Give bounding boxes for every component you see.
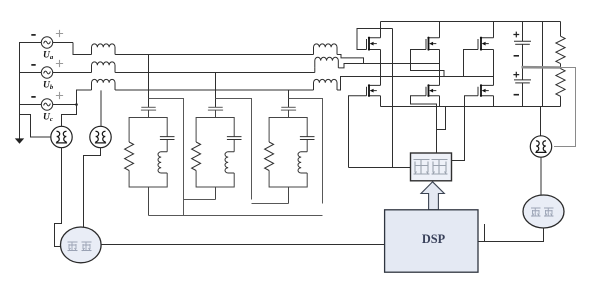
AC source Ua [41,37,52,48]
wire Ua left lead [19,42,41,44]
wire Q4 gate hook [437,107,446,130]
resistor R31 [265,142,274,171]
wire branch 1 bypass link [149,99,184,216]
transistor Q6 [481,85,494,95]
wire DC midpoint link [522,66,561,69]
transistor Q4 [429,85,440,95]
wire DC cap rail mid [522,44,524,80]
wire right sampler to DSP [478,228,544,242]
resistor Rd2 [556,69,565,97]
wire DC middle rail [542,22,544,107]
wire Q6 gate lead [452,96,479,161]
wire branch 2 loop frame [196,118,234,188]
wire between resistors [560,64,562,69]
transistor Q3 [429,38,440,50]
wire leg1 rail mid [380,50,382,86]
wire DC- to CT3 [540,107,542,136]
inductor La [92,44,116,55]
polarity + of Ub [56,60,63,67]
wire Uc riser to inductor Lc [77,90,92,105]
wire phase a line [115,54,313,56]
wire Ub right lead [53,72,92,74]
wire CT2 top tap [100,90,102,126]
capacitor Cd1 [514,40,531,42]
wire Ua right lead [53,42,73,44]
wire branch 1 drop from phase [148,55,150,108]
wire ground-side jog to CT1 [20,115,51,138]
polarity - of Cd1 [514,55,519,57]
polarity - of Uc [31,96,35,98]
polarity + of Uc [56,92,63,99]
wire branch 2 bottom link to return 1 [184,199,216,201]
wire CT1 to sampler [55,148,62,247]
inductor LB [314,68,316,73]
wire filter bottom bus [149,215,323,217]
transistor Q5 [481,38,494,50]
wire leg3 rail bottom [493,96,495,107]
polarity - of Ua [31,34,35,36]
wire branch 2 bottom drop [215,187,217,200]
wire CT3 to right sampler [540,157,542,195]
transistor Q2 [369,85,381,95]
wire leg2 rail mid [439,50,441,86]
inductor L11 [158,152,167,173]
wire branch 3 drop from phase [288,90,290,107]
wire resistor rail top [560,22,562,37]
wire midpoint to CT3 [554,68,576,147]
sampler right block [523,195,564,228]
wire branch 3 bottom link to return 2 [252,203,289,205]
inductor L21 [225,152,234,173]
wire phase b line [115,72,315,74]
capacitor C11 series [141,106,155,108]
sampler left block [61,227,102,263]
inductor Lc [92,79,116,90]
svg-text:Ub: Ub [43,81,54,92]
resistor Rd1 [556,36,565,63]
wire Q3 gate loop [411,50,445,77]
wire branch 2 bypass link [216,99,252,200]
svg-text:Uc: Uc [43,113,53,124]
node phase c junction [75,103,78,106]
transistor Q1 [369,38,381,50]
wire leg2 rail bottom [439,96,441,107]
wire Uc right lead [53,104,77,106]
wire Ub left lead [19,72,41,74]
current transformer CT3 [530,136,551,157]
wire phase C to leg3 [337,77,493,91]
wire DC- bottom bus [381,106,561,108]
wire Q3 drain rail [439,22,441,38]
capacitor C21 series [208,106,222,108]
wire CT2 to sampler [84,148,101,229]
ground [15,138,24,143]
polarity - of Ub [31,64,35,66]
wire Uc left lead [19,104,41,106]
polarity + of Cd2 [513,72,519,78]
polarity + of Cd1 [513,32,519,38]
wire branch 2 drop from phase [215,73,217,108]
block arrow DSP to driver [421,182,444,210]
driver block [411,153,452,181]
svg-text:Ua: Ua [43,51,54,62]
wire left sampler to DSP [101,244,385,246]
wire Q4 gate lead [411,96,437,153]
wire Ua step down to inductor La [73,43,92,55]
inductor Lb [92,62,116,73]
wire phase A to leg1 [337,55,363,64]
wire CT1 top tap [62,105,77,127]
wire left neutral rail [19,43,21,139]
wire Q5 drain rail [493,22,495,38]
wire leg3 rail mid [493,50,495,86]
wire DC+ top bus [381,21,561,23]
inductor LA [314,44,338,55]
wire branch 1 bottom drop [148,187,150,216]
resistor R21 [192,142,201,171]
inductor L31 [298,152,307,173]
wire branch 3 bottom drop [288,187,290,204]
polarity + of Ua [56,30,63,37]
wire Q1 gate loop [357,29,393,50]
wire Q2 gate lead [349,96,367,168]
DSP block [385,210,478,272]
capacitor C12 [160,137,175,140]
capacitor C32 [300,137,315,140]
wire stub near DSP right [484,224,486,242]
wire branch 1 loop frame [129,118,167,188]
wire phase B to leg2 [338,64,439,68]
wire gate harness to driver [349,29,411,168]
wire DC cap rail bottom [522,83,524,107]
wire Q5 gate loop [464,50,479,77]
wire resistor rail bottom [560,96,562,106]
AC source Ub [41,67,52,78]
wire DC cap rail top [522,22,524,42]
current transformer CT2 [90,126,111,147]
current transformer CT1 [51,126,72,147]
capacitor C31 series [281,106,295,108]
inductor LC [314,79,338,90]
capacitor Cd2 [514,79,531,81]
capacitor C22 [227,137,242,140]
AC source Uc [41,99,52,110]
resistor R11 [125,142,134,171]
wire branch 3 bypass link [289,99,323,204]
polarity - of Cd2 [514,94,519,96]
svg-text:DSP: DSP [422,232,446,246]
wire branch 3 loop frame [269,118,307,188]
wire leg1 rail bottom [380,96,382,107]
wire phase c line [115,89,313,91]
wire Q1 drain rail [380,22,382,38]
